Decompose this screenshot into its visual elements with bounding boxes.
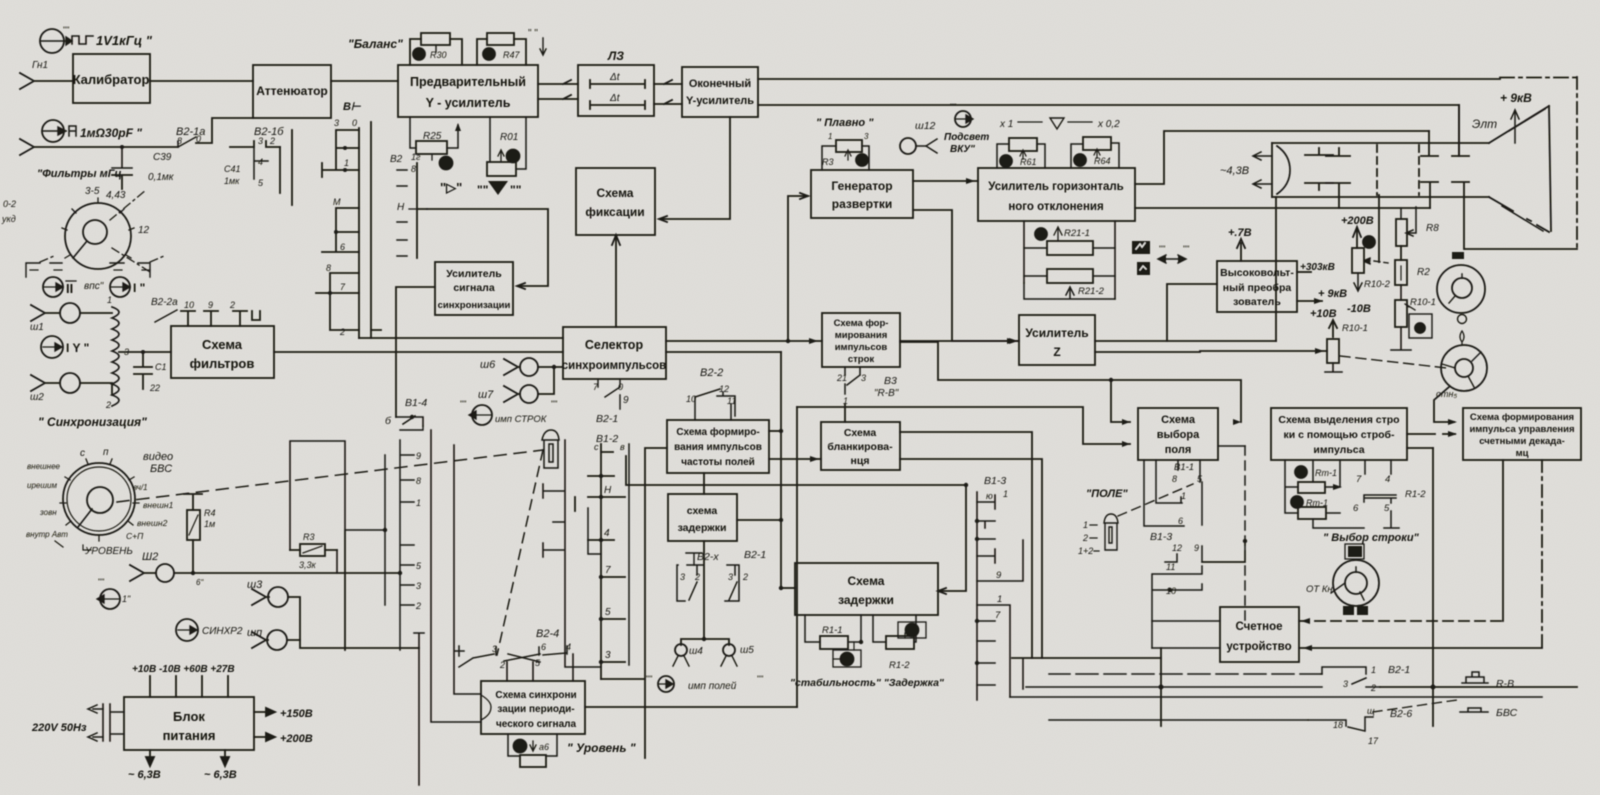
svg-text:4,43: 4,43 [106, 190, 126, 201]
jack ш4 [675, 644, 687, 656]
R61 pot above horiz amp [997, 138, 1045, 168]
funnel bottom slant [1489, 197, 1549, 232]
B-H ladder rails (tall) [359, 122, 371, 338]
svg-text:ш4: ш4 [689, 646, 703, 657]
sync box output right [585, 706, 797, 708]
svg-text:импульса управления: импульса управления [1469, 424, 1574, 435]
svg-text:сигнала: сигнала [453, 282, 495, 294]
svg-text:" Плавно ": " Плавно " [816, 117, 874, 129]
resistor R4 1M [184, 494, 216, 573]
svg-text:С1: С1 [155, 362, 167, 372]
svg-text:Усилитель горизонталь: Усилитель горизонталь [988, 181, 1123, 193]
svg-text:7: 7 [995, 610, 1001, 621]
delay element 1 [590, 80, 645, 88]
svg-text:В2-1: В2-1 [1388, 664, 1410, 676]
svg-text:9: 9 [208, 300, 213, 310]
svg-text:2: 2 [694, 572, 700, 582]
svg-text:Калибратор: Калибратор [73, 72, 150, 87]
cathode column from CRT [1378, 195, 1380, 262]
dashed link to knob [1340, 356, 1447, 368]
svg-text:Δt: Δt [609, 93, 621, 104]
svg-text:строк: строк [848, 354, 875, 365]
svg-text:3: 3 [605, 650, 611, 661]
svg-text:17: 17 [1368, 736, 1379, 746]
svg-text:1: 1 [828, 132, 832, 141]
svg-text:В3: В3 [884, 375, 897, 387]
svg-text:R64: R64 [1094, 156, 1111, 166]
right contact B2-1 [725, 565, 739, 601]
long wire ш2 to ladder [174, 572, 400, 574]
filter box top stubs [181, 311, 260, 326]
svg-text:ш12: ш12 [915, 120, 936, 132]
svg-text:внешн2: внешн2 [137, 518, 168, 528]
svg-text:Схема: Схема [848, 574, 885, 588]
svg-text:ОТ Кн: ОТ Кн [1306, 584, 1333, 595]
ПОЛЕ button [1104, 514, 1118, 550]
svg-text:+10В: +10В [1310, 308, 1337, 320]
svg-text:ш1: ш1 [30, 322, 44, 333]
svg-text:Счетное: Счетное [1235, 621, 1282, 633]
svg-text:Высоковольт-: Высоковольт- [1220, 267, 1294, 279]
svg-text:8: 8 [411, 164, 416, 174]
R8 resistor [1396, 219, 1407, 246]
svg-text:2: 2 [742, 572, 748, 582]
svg-text:ш2: ш2 [30, 392, 44, 403]
box Генератор развертки [811, 170, 913, 218]
svg-text:8: 8 [1172, 474, 1177, 484]
tangle vertical x454 into sync box [454, 445, 481, 694]
bottom bus y658 [1012, 657, 1161, 659]
box Схема формирования импульса управления счетными декадами [1463, 408, 1581, 460]
svg-text:1: 1 [107, 295, 112, 305]
svg-text:Y - усилитель: Y - усилитель [426, 96, 511, 110]
svg-text:3: 3 [861, 373, 866, 383]
svg-text:Схема: Схема [202, 337, 243, 352]
svg-text:Блок: Блок [173, 709, 205, 724]
B-H left contacts group2 [322, 208, 359, 252]
svg-text:5: 5 [1384, 503, 1390, 514]
svg-text:R4: R4 [204, 508, 216, 518]
svg-text:В2-1: В2-1 [744, 549, 766, 561]
cathode arc [1271, 143, 1273, 197]
bracket marks below knob [26, 263, 150, 277]
svg-text:II: II [66, 281, 73, 296]
svg-text:СИНХР2: СИНХР2 [202, 626, 243, 637]
svg-text:~4,3В: ~4,3В [1220, 165, 1249, 177]
center stem down to ш4 ш5 [681, 541, 729, 645]
coil tap to filter box [119, 351, 171, 353]
R1-2 pot below delay mid [873, 615, 916, 642]
svg-text:внутр Авт: внутр Авт [26, 530, 68, 539]
svg-text:схема: схема [687, 505, 718, 517]
svg-text:Δt: Δt [609, 72, 621, 83]
ladder second rail [588, 444, 629, 665]
svg-text:ВКУ": ВКУ" [950, 144, 975, 155]
mains plug symbol [103, 704, 124, 741]
svg-text:R30: R30 [430, 50, 447, 60]
X-deflection wire 2 from horizontal amp [1135, 131, 1429, 184]
balance arrow mark [540, 38, 546, 55]
svg-text:мирования: мирования [835, 330, 888, 341]
svg-text:1: 1 [416, 498, 421, 508]
svg-text:7: 7 [1356, 474, 1362, 485]
svg-text:9: 9 [1194, 543, 1199, 553]
output +150В [254, 708, 275, 716]
svg-text:3: 3 [334, 118, 339, 128]
R10-2 resistor [1352, 248, 1364, 273]
svg-text:фильтров: фильтров [190, 356, 255, 371]
svg-text:2: 2 [269, 136, 275, 146]
ВПС connector I [110, 277, 130, 297]
counter left bracket [1152, 621, 1220, 648]
wires preamp to delay line (2) [538, 80, 578, 99]
svg-text:9: 9 [623, 395, 629, 406]
svg-text:2: 2 [229, 300, 235, 310]
svg-text:R1-2: R1-2 [889, 660, 910, 671]
svg-text:6ʺ: 6ʺ [196, 578, 204, 587]
svg-text:R1-1: R1-1 [822, 625, 843, 636]
Z output to cathode [1095, 340, 1276, 342]
svg-text:R2: R2 [1417, 267, 1430, 278]
R10-1 right resistor [1395, 300, 1407, 327]
svg-text:мц: мц [1516, 448, 1529, 459]
svg-text:Схема: Схема [1161, 414, 1196, 426]
R64 pot above horiz amp [1071, 137, 1119, 168]
lower-left deflection plate [1421, 182, 1438, 208]
rotary ticks [62, 198, 134, 258]
svg-text:1м: 1м [204, 519, 215, 529]
R10-1 left resistor [1327, 339, 1339, 363]
inner coating upper [1509, 109, 1545, 131]
svg-text:В1-4: В1-4 [405, 397, 427, 409]
upper-left deflection plate [1421, 131, 1438, 156]
heater arrows [1253, 152, 1272, 160]
box Схема выделения строки [1271, 408, 1407, 460]
potentiometer R25 below preamp [410, 117, 461, 170]
svg-text:М: М [333, 197, 341, 207]
svg-text:"стабильность" "Задержка": "стабильность" "Задержка" [790, 677, 945, 689]
svg-text:3,3к: 3,3к [299, 560, 317, 570]
mechanical dashed link down to B2-4 [497, 450, 543, 655]
svg-text:ного отклонения: ного отклонения [1008, 201, 1103, 213]
svg-text:Усилитель: Усилитель [446, 268, 502, 280]
svg-text:12: 12 [1172, 543, 1182, 553]
box Схема задержки small [668, 494, 737, 541]
svg-text:синхроимпульсов: синхроимпульсов [562, 360, 667, 372]
R1-1 pot below delay mid [805, 615, 861, 642]
svg-text:2: 2 [415, 601, 421, 611]
dot near R10-2 [1363, 236, 1375, 248]
svg-text:Y-усилитель: Y-усилитель [686, 95, 754, 107]
grid electrode 2 [1305, 183, 1333, 190]
svg-text:+150В: +150В [280, 708, 313, 720]
small pointer symbol [1460, 331, 1464, 345]
wire аттенюатор-предварительный [331, 80, 398, 82]
bottom wires left of B2-6 [1049, 719, 1308, 721]
svg-text:Н: Н [397, 202, 405, 213]
sweep to Z amp path [913, 210, 1019, 341]
input jack 1 [20, 73, 73, 89]
connector синхр2 [176, 619, 198, 641]
box Схема задержки mid [795, 563, 938, 615]
svg-text:зации периоди-: зации периоди- [497, 704, 574, 715]
svg-text:R3: R3 [303, 532, 315, 542]
label 1V 1kHz [72, 36, 93, 44]
box Схема выбора поля [1138, 408, 1218, 460]
potentiometer R01 below preamp [487, 117, 526, 176]
svg-text:5: 5 [605, 607, 611, 618]
svg-text:R21-1: R21-1 [1064, 228, 1090, 239]
knob link down [1434, 387, 1454, 422]
box Блок питания [124, 697, 254, 750]
output ~6.3В right [221, 750, 229, 766]
БВС button symbol [1460, 707, 1518, 719]
svg-text:+200В: +200В [1341, 215, 1374, 227]
svg-text:С41: С41 [224, 164, 241, 174]
svg-text:1+2: 1+2 [1078, 546, 1093, 556]
svg-text:1мΩ30pF ": 1мΩ30pF " [80, 126, 142, 140]
wires ЛЗ to final amp [654, 80, 682, 104]
svg-text:x 0,2: x 0,2 [1097, 119, 1120, 130]
svg-text:впс": впс" [84, 281, 104, 292]
svg-text:ʺʺ: ʺʺ [510, 183, 521, 197]
svg-text:Предварительный: Предварительный [410, 75, 526, 89]
svg-text:В1-1: В1-1 [1174, 462, 1194, 473]
ВПС connector II [43, 277, 63, 297]
svg-text:6: 6 [340, 242, 345, 252]
svg-text:импульсов: импульсов [835, 342, 888, 353]
svg-text:1мк: 1мк [224, 176, 240, 186]
CRT tube body [1272, 143, 1489, 197]
svg-text:Н: Н [604, 485, 612, 496]
delay element 2 [590, 101, 645, 109]
bus y485 from ladder to x966 [626, 456, 966, 485]
R21-2 feedback resistor [1024, 269, 1115, 299]
svg-text:поля: поля [1165, 444, 1192, 456]
fields box output up-right [769, 430, 781, 432]
svg-text:"R-В": "R-В" [874, 388, 899, 399]
svg-text:" ": " " [528, 28, 538, 39]
svg-text:фиксации: фиксации [585, 205, 644, 219]
dashed separator 1 [1376, 145, 1378, 195]
svg-text:x 1: x 1 [999, 119, 1013, 130]
sweep to horiz amp [913, 180, 978, 182]
svg-text:С39: С39 [153, 152, 172, 163]
funnel top slant [1489, 106, 1549, 143]
B-H left contacts group1 [322, 130, 359, 177]
svg-text:ʺʺ: ʺʺ [98, 577, 104, 587]
svg-text:0: 0 [352, 118, 357, 128]
строк switch down to blanking [844, 404, 846, 422]
svg-text:Схема формирования: Схема формирования [1470, 412, 1574, 423]
svg-text:Rт-1: Rт-1 [1315, 468, 1337, 478]
svg-text:+ 9кВ: + 9кВ [1500, 91, 1532, 105]
svg-text:ʺʺ: ʺʺ [551, 399, 557, 409]
connector circle-arrow small [97, 577, 131, 609]
svg-text:видео: видео [143, 451, 173, 463]
svg-text:3-5: 3-5 [85, 186, 100, 197]
wire filters to selector [274, 351, 563, 353]
R2 resistor [1395, 260, 1407, 285]
svg-text:Элт: Элт [1472, 117, 1497, 131]
svg-text:имп полей: имп полей [688, 681, 737, 692]
box Схема синхронизации периодического сигнала [481, 681, 585, 734]
svg-text:Усилитель: Усилитель [1025, 326, 1088, 340]
box Схема фиксации [576, 168, 655, 235]
long vertical x781 (selector bus down) [780, 352, 782, 588]
svg-text:зователь: зователь [1233, 296, 1281, 308]
svg-text:ный преобра: ный преобра [1223, 282, 1292, 294]
декадами outputs down [1502, 460, 1504, 621]
svg-text:ирешим: ирешим [27, 481, 57, 490]
black squares near knob [1348, 549, 1361, 557]
svg-text:БВС: БВС [1496, 707, 1518, 719]
svg-text:Аттенюатор: Аттенюатор [256, 84, 327, 98]
anode electrode with stem to X wire [1326, 183, 1350, 208]
svg-text:1: 1 [1003, 489, 1008, 499]
svg-text:развертки: развертки [832, 197, 892, 211]
R21-1 feedback resistor [1024, 221, 1115, 299]
tangle vertical x419 [414, 633, 424, 785]
fixation arrow from selector [612, 235, 620, 327]
svg-text:2: 2 [105, 400, 111, 410]
black square indicator 1 [1132, 241, 1150, 254]
link fields box to delay small [703, 473, 705, 494]
dash-dot pointers from knob [110, 190, 146, 220]
screen face [1549, 106, 1551, 231]
dashed vertical to counter [1244, 446, 1246, 621]
svg-text:6: 6 [1178, 516, 1183, 526]
CRT dash-dot enclosure right edge [1576, 77, 1578, 249]
svg-text:внешн1: внешн1 [143, 500, 174, 510]
box Счетное устройство [1220, 607, 1299, 662]
field select input wire B [797, 407, 1130, 444]
counter dashed input right [1299, 620, 1503, 622]
svg-text:8: 8 [326, 263, 331, 273]
Rt-1 pots below [1295, 466, 1307, 478]
svg-text:Схема выделения стро: Схема выделения стро [1278, 414, 1399, 426]
svg-text:7: 7 [605, 565, 611, 576]
box Усилитель Z [1019, 315, 1095, 365]
svg-text:щ: щ [1367, 706, 1375, 716]
svg-text:задержки: задержки [678, 522, 727, 534]
svg-text:R10-1: R10-1 [1410, 297, 1436, 308]
уровень pot below sync box [508, 734, 557, 756]
ladder B1-2 rungs [575, 444, 625, 662]
svg-text:В2-2а: В2-2а [151, 297, 178, 308]
svg-text:3: 3 [680, 572, 685, 582]
wire Y bus 1 to CRT border [758, 78, 1500, 80]
svg-text:нця: нця [851, 455, 870, 467]
svg-text:1: 1 [344, 158, 349, 168]
svg-text:В⊢: В⊢ [343, 101, 361, 113]
dashed link ПОЛЕ to B1-1 [1118, 484, 1193, 516]
capacitor C39 [112, 147, 132, 168]
svg-text:R1-2: R1-2 [1405, 489, 1426, 500]
svg-text:В2-1: В2-1 [596, 413, 618, 425]
svg-text:ш6: ш6 [480, 359, 496, 371]
ladder B1-2 rail [600, 452, 602, 679]
ladder rails right of C41 [280, 130, 292, 205]
box Калибратор [73, 54, 150, 103]
node at jack wire [120, 145, 124, 149]
upper-right deflection plate [1452, 105, 1469, 156]
svg-text:в: в [620, 442, 625, 452]
button plunger symbol [542, 430, 559, 468]
svg-text:ʺʺ: ʺʺ [1159, 244, 1165, 254]
long vertical x1433 from выделения [1432, 448, 1434, 726]
input jack 2 [20, 139, 178, 155]
svg-text:2: 2 [1082, 533, 1088, 543]
svg-text:задержки: задержки [838, 593, 894, 607]
svg-text:синхронизации: синхронизации [438, 300, 511, 311]
box Усилитель сигнала синхронизации [435, 262, 513, 315]
delay line ЛЗ box [578, 65, 654, 116]
svg-text:В1-3: В1-3 [984, 475, 1006, 487]
svg-text:3: 3 [728, 572, 733, 582]
svg-text:устройство: устройство [1226, 641, 1291, 653]
left contact B2-x [677, 565, 703, 601]
svg-text:В1-2: В1-2 [596, 433, 618, 445]
svg-text:Селектор: Селектор [585, 338, 644, 352]
svg-text:3: 3 [864, 132, 869, 141]
svg-text:11: 11 [1166, 562, 1175, 572]
svg-text:ʺʺ: ʺʺ [757, 674, 763, 684]
svg-text:+.7В: +.7В [1228, 227, 1252, 239]
svg-text:"▷": "▷" [440, 180, 462, 195]
box Селектор синхроимпульсов [563, 327, 666, 379]
svg-text:R3: R3 [822, 157, 834, 167]
wire калибратор-аттенюатор [150, 80, 253, 82]
knob ОТ КН [1331, 560, 1379, 606]
svg-text:ки с помощью строб-: ки с помощью строб- [1283, 429, 1395, 441]
svg-text:+200В: +200В [280, 733, 313, 745]
svg-text:В2: В2 [390, 154, 403, 165]
svg-text:Z: Z [1053, 345, 1060, 359]
R10-1 wiper box [1409, 314, 1432, 338]
svg-text:3: 3 [416, 581, 421, 591]
svg-text:1V1кГц ": 1V1кГц " [96, 33, 153, 48]
svg-text:ш7: ш7 [478, 389, 494, 401]
svg-text:6: 6 [541, 642, 546, 652]
blanking outputs right [900, 432, 1032, 658]
svg-text:9: 9 [996, 570, 1002, 581]
small circle below knob [1458, 315, 1467, 324]
svg-text:отн₅: отн₅ [1436, 389, 1457, 399]
X-deflection wire 1 from horizontal amp [1135, 207, 1430, 209]
svg-text:R61: R61 [1020, 157, 1037, 167]
svg-text:В2-2: В2-2 [700, 367, 723, 379]
svg-text:ʺʺ: ʺʺ [63, 25, 69, 35]
supply stubs top [150, 676, 228, 697]
svg-text:R47: R47 [503, 50, 521, 60]
box Схема формирования импульсов строк [822, 313, 900, 367]
output ~6.3В left [146, 750, 154, 766]
svg-text:10: 10 [184, 300, 194, 310]
svg-text:ш3: ш3 [247, 579, 263, 591]
svg-text:с: с [80, 448, 85, 459]
rotary2 ticks [60, 459, 139, 541]
box Усилитель горизонтального отклонения [978, 168, 1135, 221]
svg-text:Генератор: Генератор [831, 179, 892, 193]
box Оконечный У-усилитель [682, 67, 758, 117]
svg-text:а6: а6 [539, 742, 549, 752]
resistor R3 3.3k [290, 532, 337, 570]
rotary switch attenuator knob [65, 203, 131, 269]
wire from B2-1a up to attenuator bottom [196, 118, 253, 143]
grid electrode 1 [1305, 148, 1333, 155]
svg-text:с: с [594, 442, 599, 452]
